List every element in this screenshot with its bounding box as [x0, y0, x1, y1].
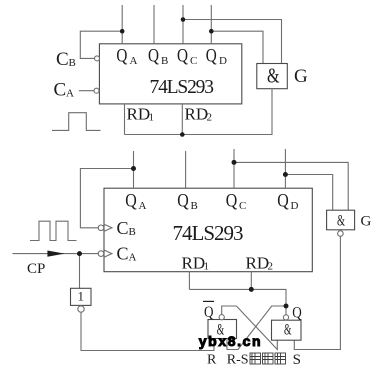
svg-text:B: B [129, 226, 136, 238]
svg-text:CP: CP [27, 261, 45, 277]
wire QC U2 output vertical [233, 149, 235, 188]
svg-text:RD: RD [127, 105, 151, 124]
svg-text:C: C [117, 218, 129, 238]
svg-text:Q: Q [206, 46, 217, 67]
svg-text:B: B [191, 200, 198, 212]
svg-text:2: 2 [207, 112, 213, 124]
svg-text:Q: Q [226, 191, 238, 212]
gate G2 output bubble [338, 231, 344, 237]
nand-gate G4 (latch right) body [272, 320, 302, 340]
svg-text:RD: RD [246, 254, 270, 273]
wire G2 output down to S input [294, 236, 340, 349]
svg-text:74LS293: 74LS293 [173, 221, 244, 245]
junction RD2 (bottom) [249, 287, 254, 292]
svg-text:RD: RD [182, 254, 206, 273]
svg-text:C: C [56, 49, 69, 70]
pin CA clock triangle (bottom IC) [104, 250, 112, 257]
waveform pulse train (bottom) [30, 221, 77, 240]
pin RD1 stub (bottom) [188, 272, 190, 290]
svg-text:R: R [207, 353, 217, 368]
svg-text:G: G [361, 214, 372, 230]
svg-text:74LS293: 74LS293 [150, 77, 215, 98]
inverter B1 output bubble [78, 306, 84, 312]
pin CA bubble (bottom IC) [98, 251, 104, 257]
svg-text:C: C [54, 80, 67, 101]
svg-text:1: 1 [78, 289, 85, 304]
arrowhead CP [47, 251, 64, 257]
svg-text:1: 1 [149, 112, 155, 124]
pin CA bubble (top IC) [94, 88, 99, 93]
wire QB U1 output vertical [153, 5, 155, 44]
label Chinese chars 触发器 (drawn strokes) [250, 353, 286, 364]
junction CP node [77, 251, 82, 256]
wire latch Q junction down to bubble [285, 306, 287, 315]
junction QC rail (top) [181, 17, 186, 22]
svg-text:C: C [117, 244, 129, 264]
wire QD to G1 left input [211, 31, 263, 63]
svg-text:S: S [293, 352, 301, 368]
svg-text:Q: Q [177, 191, 189, 212]
wire G3 output up-right [222, 306, 237, 315]
svg-text:Q: Q [177, 46, 188, 67]
pin CB clock triangle (bottom IC) [104, 224, 112, 231]
junction latch Q node [284, 304, 289, 309]
and-gate G2 body [327, 210, 355, 230]
inverter B1 box "1" [71, 288, 92, 305]
svg-text:A: A [130, 55, 138, 67]
svg-text:R-S: R-S [227, 353, 249, 368]
wire QA feedback to CB (top) [80, 31, 122, 58]
svg-text:&: & [284, 322, 292, 339]
pin CB bubble (top IC) [95, 56, 100, 61]
IC U1 74LS293 (top) body [99, 44, 241, 104]
svg-text:2: 2 [268, 261, 274, 273]
svg-text:Q: Q [204, 304, 214, 321]
wire CP to inverter [79, 254, 81, 289]
wire QB U2 output vertical [185, 151, 187, 188]
svg-text:RD: RD [185, 105, 209, 124]
pin RD2 stub (top) [181, 104, 183, 135]
overbar of Q-bar [203, 301, 214, 302]
wire cross-couple G3 output to G4 input (diagonal) [236, 306, 277, 350]
svg-text:Q: Q [148, 46, 159, 67]
waveform single pulse (top) [52, 113, 101, 131]
svg-text:Q: Q [292, 305, 302, 322]
wire CP input [12, 253, 98, 255]
wire QA U1 output vertical [121, 5, 123, 44]
IC U2 74LS293 (bottom) body [104, 188, 312, 272]
wire QC to G1 right input [183, 20, 282, 64]
wire cross-couple G4 output to G3 input (diagonal) [227, 306, 286, 350]
svg-text:1: 1 [204, 261, 210, 273]
wire CA input stub (top) [79, 90, 95, 92]
wire G1 output to RD rail (top) [125, 89, 273, 135]
svg-text:ybx8.cn: ybx8.cn [199, 333, 262, 349]
svg-text:Q: Q [277, 191, 289, 212]
wire QC to G2 right input [234, 162, 348, 210]
wire QC U1 output vertical [182, 5, 184, 44]
wire QA U2 output vertical [133, 151, 135, 188]
svg-text:D: D [291, 200, 299, 212]
gate G3 output bubble [219, 315, 224, 320]
wire QD U2 output vertical [284, 149, 286, 188]
wire QD U1 output vertical [210, 5, 212, 44]
svg-text:B: B [161, 55, 168, 67]
wire inverter output to R input [81, 312, 214, 350]
svg-text:A: A [129, 252, 137, 264]
svg-text:&: & [337, 212, 345, 229]
svg-text:B: B [69, 57, 76, 69]
gate G4 output bubble [283, 315, 288, 320]
svg-text:A: A [139, 200, 147, 212]
junction QD rail (bottom) [283, 172, 288, 177]
junction QA-CB (top) [120, 29, 125, 34]
svg-text:&: & [267, 64, 280, 88]
svg-text:A: A [66, 88, 74, 100]
svg-text:G: G [294, 66, 308, 87]
nand-gate G3 (latch left) body [208, 320, 237, 339]
junction QA-CB (bottom) [131, 166, 136, 171]
pin RD1 stub (top) [124, 104, 126, 135]
svg-text:Q: Q [116, 46, 127, 67]
svg-text:C: C [190, 55, 197, 67]
svg-text:Q: Q [125, 191, 137, 212]
junction RD2 (top) [180, 132, 185, 137]
junction QD rail (top) [209, 29, 214, 34]
svg-text:D: D [219, 55, 227, 67]
wire QA feedback to CB (bottom) [80, 169, 133, 228]
and-gate G1 body [257, 64, 288, 89]
pin RD2 stub (bottom) [250, 272, 252, 290]
svg-text:C: C [239, 200, 246, 212]
wire QD to G2 left input [285, 175, 332, 211]
pin CB bubble (bottom IC) [98, 225, 104, 231]
wire RD rail to latch Q [189, 289, 286, 306]
junction QC rail (bottom) [232, 160, 237, 165]
